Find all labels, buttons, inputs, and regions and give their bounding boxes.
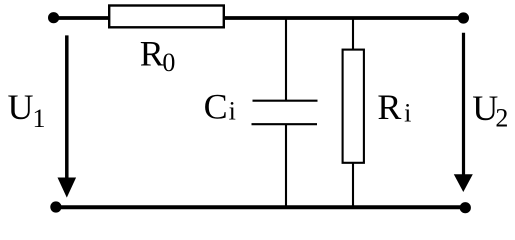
- capacitor Ci top plate: [253, 100, 318, 102]
- svg-text:R: R: [140, 34, 164, 74]
- resistor R0: [109, 6, 224, 28]
- node top-right: [458, 12, 469, 23]
- wire bottom rail: [56, 205, 465, 209]
- node top-left: [48, 12, 59, 23]
- wire Ri bottom lead: [352, 162, 354, 207]
- svg-text:R: R: [377, 87, 401, 127]
- capacitor Ci bottom plate: [252, 123, 318, 125]
- wire capacitor bottom lead: [285, 124, 287, 207]
- node bottom-left: [50, 201, 61, 212]
- wire top rail: [53, 16, 464, 20]
- svg-text:i: i: [229, 96, 236, 125]
- node bottom-right: [460, 202, 471, 213]
- wire Ri top lead: [352, 18, 354, 50]
- svg-text:1: 1: [33, 104, 46, 133]
- svg-text:U: U: [8, 87, 34, 127]
- wire capacitor top lead: [285, 18, 287, 100]
- resistor Ri: [343, 50, 364, 163]
- svg-text:C: C: [204, 87, 228, 127]
- svg-text:U: U: [472, 88, 498, 128]
- svg-text:2: 2: [495, 103, 508, 132]
- svg-text:0: 0: [162, 48, 175, 77]
- svg-text:i: i: [404, 98, 411, 127]
- arrow U2: [462, 33, 465, 176]
- arrow U1: [65, 35, 69, 179]
